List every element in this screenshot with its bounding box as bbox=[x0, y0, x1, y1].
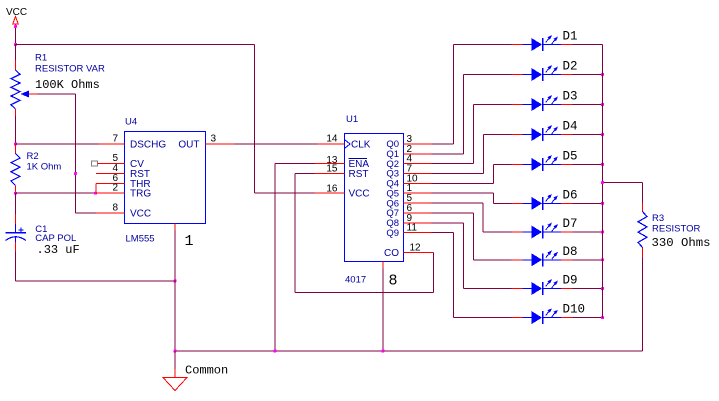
svg-text:VCC: VCC bbox=[6, 7, 27, 18]
svg-text:16: 16 bbox=[326, 183, 338, 194]
node D8 rail junction bbox=[601, 258, 604, 261]
node D6 rail junction bbox=[601, 202, 604, 205]
wire TRG(2) to R2/C1 junction bbox=[16, 192, 96, 194]
svg-text:7: 7 bbox=[112, 134, 118, 145]
svg-text:100K Ohms: 100K Ohms bbox=[35, 78, 100, 92]
svg-text:Common: Common bbox=[185, 364, 228, 378]
svg-text:RESISTOR: RESISTOR bbox=[652, 224, 701, 235]
pin 7 Q3 stub bbox=[386, 164, 431, 180]
wire D4 cathode to rail bbox=[573, 134, 603, 136]
pin 13 ENA stub bbox=[315, 155, 345, 166]
svg-text:15: 15 bbox=[326, 164, 338, 175]
wire Q2 to D3 bbox=[432, 105, 512, 164]
svg-text:D6: D6 bbox=[563, 188, 578, 202]
svg-text:D9: D9 bbox=[563, 274, 578, 288]
wire ENA(13) to common rail bbox=[275, 164, 315, 351]
pin 16 VCC stub bbox=[315, 183, 345, 194]
pin 4 RST stub bbox=[96, 163, 125, 174]
svg-text:8: 8 bbox=[389, 273, 398, 290]
capacitor C1 (polarized) bbox=[6, 193, 80, 281]
wire U4 pin1 to common rail bbox=[174, 224, 176, 352]
svg-text:U4: U4 bbox=[125, 117, 137, 128]
power symbol VCC bbox=[6, 7, 27, 27]
wire Q0 to D1 bbox=[432, 45, 512, 145]
pin 2 Q1 stub bbox=[386, 144, 431, 160]
wire D5 cathode to rail bbox=[573, 163, 603, 165]
LED D10 bbox=[512, 303, 586, 325]
LED D2 bbox=[512, 60, 578, 82]
node VCC junction bbox=[14, 25, 17, 46]
svg-text:3: 3 bbox=[211, 134, 217, 145]
node D4 rail junction bbox=[601, 133, 604, 136]
wire common ground rail bbox=[175, 350, 643, 352]
svg-text:.33 uF: .33 uF bbox=[37, 243, 80, 257]
wire OUT(3) to CLK(14) bbox=[235, 143, 318, 145]
wire D2 cathode to rail bbox=[573, 74, 603, 76]
pin 6 Q7 stub bbox=[386, 203, 431, 219]
wire U1 gnd to common rail bbox=[382, 262, 384, 352]
svg-text:RESISTOR VAR: RESISTOR VAR bbox=[35, 64, 105, 75]
svg-text:Q9: Q9 bbox=[386, 228, 399, 239]
LED D9 bbox=[512, 274, 578, 296]
wire Q6 to D7 bbox=[432, 203, 512, 232]
svg-text:R1: R1 bbox=[35, 53, 47, 64]
LED D5 bbox=[512, 149, 578, 171]
wire C1 to ground vertical bbox=[16, 280, 176, 282]
svg-text:1: 1 bbox=[185, 233, 194, 250]
wire Q1 to D2 bbox=[432, 75, 512, 154]
pin 2 TRG stub bbox=[96, 183, 125, 194]
svg-text:U1: U1 bbox=[346, 114, 358, 125]
resistor R3 bbox=[638, 203, 711, 258]
svg-text:RST: RST bbox=[349, 169, 369, 180]
svg-text:D10: D10 bbox=[563, 303, 586, 317]
node common rail junctions bbox=[174, 350, 385, 353]
LED D7 bbox=[512, 217, 578, 239]
ground symbol Common bbox=[163, 351, 228, 391]
svg-text:TRG: TRG bbox=[130, 189, 151, 200]
wire Q8 to D9 bbox=[432, 223, 512, 289]
wire D10 cathode to rail bbox=[573, 317, 603, 319]
pin 8 VCC stub bbox=[96, 202, 125, 213]
LED D1 bbox=[512, 30, 578, 52]
wire Q4 to D5 bbox=[432, 164, 512, 183]
svg-text:12: 12 bbox=[410, 243, 422, 254]
pin 14 CLK stub bbox=[318, 134, 345, 145]
wire LED cathode rail bbox=[602, 45, 604, 318]
svg-text:VCC: VCC bbox=[130, 208, 151, 219]
resistor R1 (potentiometer) bbox=[11, 45, 105, 145]
node R3 tap junction bbox=[601, 181, 604, 184]
node C1/U4-gnd junction bbox=[174, 280, 177, 283]
svg-text:CLK: CLK bbox=[351, 140, 371, 151]
svg-text:VCC: VCC bbox=[349, 189, 370, 200]
pin 5 Q6 stub bbox=[386, 193, 431, 209]
pin 5 CV stub with no-connect square bbox=[92, 153, 125, 166]
svg-text:DSCHG: DSCHG bbox=[130, 140, 166, 151]
LED D6 bbox=[512, 188, 578, 210]
pin 9 Q8 stub bbox=[386, 213, 431, 229]
pin 1 Q5 stub bbox=[386, 183, 431, 199]
svg-text:8: 8 bbox=[112, 202, 118, 213]
wire Q5 to D6 bbox=[432, 193, 512, 203]
node wiper/RST junction bbox=[74, 172, 77, 175]
node D10 rail junction bbox=[601, 316, 604, 319]
wire Q3 to D4 bbox=[432, 135, 512, 174]
svg-text:R2: R2 bbox=[27, 151, 39, 162]
svg-text:D3: D3 bbox=[563, 90, 578, 104]
pin 3 OUT stub bbox=[206, 134, 235, 145]
node R2/C1/TRG junction bbox=[14, 192, 17, 195]
wire D1 cathode to rail bbox=[573, 44, 603, 46]
svg-text:D5: D5 bbox=[563, 149, 578, 163]
pin 11 Q9 stub bbox=[386, 223, 431, 239]
svg-text:11: 11 bbox=[407, 223, 418, 234]
wire D7 cathode to rail bbox=[573, 231, 603, 233]
pin 12 CO stub bbox=[404, 243, 434, 254]
node D3 rail junction bbox=[601, 103, 604, 106]
node D2 rail junction bbox=[601, 73, 604, 76]
wire RST(15) to CO(12) loop bbox=[295, 174, 434, 293]
wire Q7 to D8 bbox=[432, 213, 512, 260]
pin 10 Q4 stub bbox=[386, 173, 431, 189]
svg-text:D2: D2 bbox=[563, 60, 578, 74]
svg-text:CO: CO bbox=[384, 248, 399, 259]
wire Q9 to D10 bbox=[432, 233, 512, 318]
LED D8 bbox=[512, 245, 578, 266]
svg-text:330 Ohms: 330 Ohms bbox=[652, 236, 711, 250]
pin 4 Q2 stub bbox=[386, 154, 431, 170]
LED D4 bbox=[512, 120, 578, 142]
wire THR(6) jog to TRG wire bbox=[95, 183, 97, 193]
pin 3 Q0 stub bbox=[386, 134, 431, 150]
wire D9 cathode to rail bbox=[573, 288, 603, 290]
svg-text:R3: R3 bbox=[652, 213, 664, 224]
svg-text:D1: D1 bbox=[563, 30, 578, 44]
wire D6 cathode to rail bbox=[573, 202, 603, 204]
node THR/TRG junction bbox=[94, 192, 97, 195]
node R1 bottom / DSCHG junction bbox=[14, 143, 17, 146]
node D9 rail junction bbox=[601, 287, 604, 290]
svg-text:D4: D4 bbox=[563, 120, 578, 134]
svg-text:1K Ohm: 1K Ohm bbox=[27, 162, 62, 173]
wire D3 cathode to rail bbox=[573, 104, 603, 106]
svg-text:4017: 4017 bbox=[345, 275, 366, 286]
wire DSCHG(7) to R1/R2 junction bbox=[16, 143, 100, 145]
wire R1 wiper to RST(4) and VCC(8) of U4 bbox=[38, 94, 97, 213]
LED D3 bbox=[512, 90, 578, 112]
svg-text:OUT: OUT bbox=[178, 140, 199, 151]
op-amp U4 LM555 timer bbox=[125, 117, 206, 251]
wire D8 cathode to rail bbox=[573, 259, 603, 261]
node D7 rail junction bbox=[601, 231, 604, 234]
pin 6 THR stub bbox=[96, 173, 125, 184]
svg-text:D7: D7 bbox=[563, 217, 578, 231]
node D5 rail junction bbox=[601, 163, 604, 166]
svg-text:14: 14 bbox=[326, 134, 338, 145]
svg-text:D8: D8 bbox=[563, 245, 578, 259]
pin 7 DSCHG stub bbox=[99, 134, 125, 145]
wire VCC to top rail bbox=[15, 27, 17, 45]
wire rail tap to R3 bbox=[603, 183, 643, 203]
wire top VCC rail bbox=[16, 45, 315, 194]
IC U1 4017 decade counter bbox=[345, 114, 404, 290]
pin CO label bbox=[384, 248, 399, 259]
svg-text:LM555: LM555 bbox=[126, 234, 155, 245]
resistor R2 bbox=[11, 145, 61, 194]
pin 15 RST stub bbox=[315, 164, 345, 175]
svg-text:2: 2 bbox=[112, 183, 118, 194]
wire R3 to common rail bbox=[642, 258, 644, 352]
